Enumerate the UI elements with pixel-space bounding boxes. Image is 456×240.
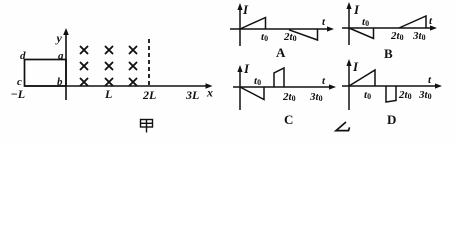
svg-text:L: L — [104, 87, 112, 101]
caption yi — [336, 122, 350, 131]
dashed boundary at 2L — [148, 39, 150, 86]
C waveform ramp down 0-t0 — [240, 87, 264, 100]
svg-text:I: I — [242, 2, 249, 17]
loop abcd — [25, 60, 67, 87]
svg-text:I: I — [352, 59, 359, 74]
B waveform ramp up 2t0-3t0 — [399, 16, 426, 28]
svg-text:3L: 3L — [185, 88, 199, 102]
D I-axis — [346, 59, 351, 110]
A waveform ramp down 2t0-3t0 — [289, 30, 318, 41]
svg-text:x: x — [206, 86, 213, 100]
A waveform ramp up 0-t0 — [240, 18, 266, 30]
D t-axis — [342, 83, 442, 88]
field symbols x grid — [81, 47, 137, 86]
svg-text:y: y — [55, 31, 63, 45]
D waveform ramp up 0-t0 — [349, 70, 375, 86]
svg-text:B: B — [384, 46, 393, 61]
svg-text:I: I — [353, 2, 360, 17]
caption jia — [141, 119, 153, 133]
svg-text:A: A — [276, 45, 286, 60]
B I-axis — [346, 2, 351, 45]
x-axis — [25, 83, 213, 89]
B t-axis — [342, 25, 437, 30]
C t-axis — [233, 84, 336, 89]
D waveform negative pulse 1.5t0-2t0 — [386, 86, 396, 102]
C waveform pulse 1.5t0-2t0 — [274, 68, 284, 87]
B waveform ramp down 0-t0 — [349, 28, 374, 39]
svg-text:a: a — [58, 50, 64, 62]
svg-text:D: D — [387, 112, 396, 127]
svg-text:d: d — [20, 50, 26, 62]
svg-text:2L: 2L — [142, 88, 156, 102]
A I-axis — [237, 3, 242, 46]
A t-axis — [230, 26, 334, 31]
svg-text:I: I — [243, 61, 250, 76]
svg-text:−L: −L — [11, 87, 26, 101]
y-axis — [63, 28, 69, 100]
svg-text:C: C — [284, 112, 293, 127]
C I-axis — [237, 65, 242, 110]
svg-text:b: b — [57, 76, 63, 88]
